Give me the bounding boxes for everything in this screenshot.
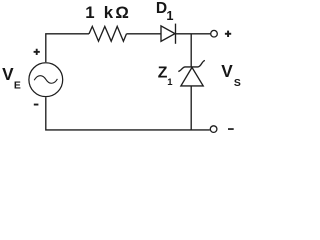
output polarity - [228, 128, 234, 130]
svg-text:V: V [221, 61, 233, 81]
wire top-left from source to resistor [46, 34, 89, 62]
AC source sine wave [34, 76, 57, 84]
diode D1 triangle [161, 26, 175, 42]
zener Z1 triangle [181, 67, 203, 86]
svg-text:1 kΩ: 1 kΩ [85, 3, 131, 22]
diode D1 cathode bar [175, 24, 177, 44]
output polarity + [225, 33, 231, 35]
wire diode to + terminal [176, 33, 211, 35]
svg-text:V: V [2, 64, 14, 84]
zener Z1 cathode bent bar [178, 61, 205, 72]
wire zener to bottom rail [190, 86, 192, 130]
wire source bottom to bottom rail [46, 97, 210, 130]
svg-text:S: S [234, 78, 241, 89]
polarity - below source [34, 104, 39, 106]
svg-text:1: 1 [166, 8, 173, 23]
output terminal - circle [210, 126, 217, 133]
svg-text:Z: Z [158, 64, 168, 81]
polarity + above source [34, 51, 40, 53]
resistor R1 zigzag [89, 26, 127, 41]
wire junction down to zener Z1 [190, 34, 192, 67]
AC voltage source VE circle [29, 63, 63, 97]
svg-text:E: E [14, 81, 21, 92]
wire resistor to diode [127, 33, 162, 35]
output terminal + circle [211, 30, 218, 37]
svg-text:1: 1 [167, 77, 173, 88]
